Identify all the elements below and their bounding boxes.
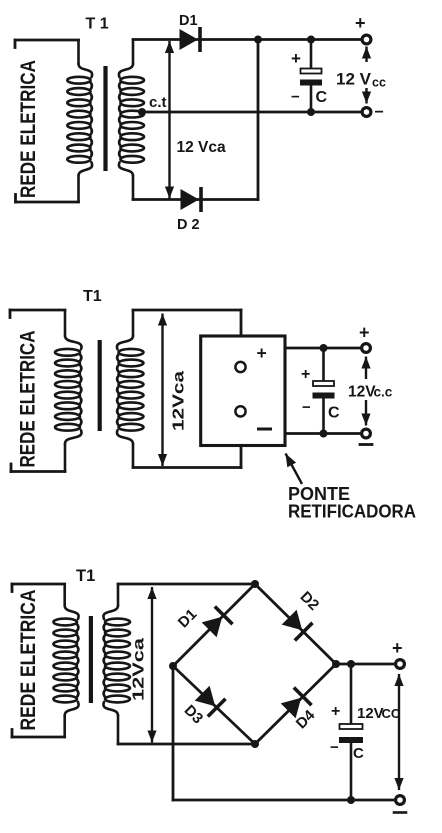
terminal + C1 [362,35,371,44]
bridge input terminal top [235,362,245,372]
svg-text:12Vca: 12Vca [131,638,148,701]
diode D2 (bridge) [282,610,313,641]
junction C2 cap top [320,344,328,352]
wire C2 mains bottom [11,470,65,473]
wire C1 mains top tick [14,40,17,48]
transformer T1-C2 secondary winding [117,310,144,468]
svg-text:C: C [316,89,328,106]
wire C2 top drop [240,310,243,363]
wire C1 center-tap rail [142,111,362,114]
wire C1 mains bottom [16,201,79,204]
svg-text:12Vca: 12Vca [171,371,188,431]
svg-text:C: C [353,745,364,762]
wire C1 mains bottom tick [14,195,17,203]
wire C2 mains top tick [9,310,12,318]
node C3 bridge left [169,662,177,670]
bridge rectifier box [201,336,285,446]
svg-text:+: + [359,323,370,343]
svg-text:+: + [301,366,310,383]
wire C2 secondary top rail [133,309,241,312]
svg-text:CC: CC [382,706,401,721]
junction C1 cap top [307,36,315,44]
wire C2 out bottom [285,432,362,435]
svg-text:REDE ELETRICA: REDE ELETRICA [17,590,40,731]
label - output C2 [360,443,372,446]
diode D2 [181,187,202,212]
wire C2 bottom riser [240,418,243,468]
label - output C3 [394,811,406,814]
svg-text:−: − [291,89,300,106]
wire C3 secondary bottom rail [118,743,255,746]
junction C3 cap bottom [347,796,355,804]
wire C3 bottom rail [173,799,395,802]
svg-text:RETIFICADORA: RETIFICADORA [288,502,416,522]
arrow C1 Vcc up [362,47,371,63]
capacitor C (C1) [300,40,322,113]
wire C3 edge top-right [255,584,336,664]
wire C3 mains top tick [11,584,14,592]
transformer T1-C2 primary winding [55,310,82,472]
svg-text:12 Vca: 12 Vca [177,139,227,156]
svg-text:+: + [355,13,366,33]
diode D1 (bridge) [202,607,233,638]
arrow C1 Vcc down [362,88,371,104]
terminal - C1 [362,108,371,117]
wire C3 edge bottom-left [173,666,255,744]
junction C2 cap bottom [320,430,328,438]
diode D1 [180,27,201,52]
wire C3 out top [336,663,395,666]
svg-text:12V: 12V [348,384,376,401]
wire C3 edge top-left [173,584,255,666]
svg-text:REDE ELETRICA: REDE ELETRICA [17,60,40,198]
diode D3 (bridge) [195,686,226,717]
wire C3 edge bottom-right [255,664,336,744]
terminal - C3 [396,796,405,805]
wire C1 mains top [15,39,79,42]
svg-text:+: + [257,343,267,363]
svg-text:−: − [330,739,339,756]
svg-text:T 1: T 1 [86,16,109,33]
arrow C3 Vca measure [147,587,156,743]
capacitor C (C3) [339,664,363,800]
svg-text:−: − [302,399,311,416]
svg-text:+: + [331,703,340,720]
svg-text:REDE ELETRICA: REDE ELETRICA [17,331,40,468]
svg-text:D 2: D 2 [177,217,200,233]
node c.t [138,108,146,116]
bridge input terminal bottom [235,406,245,416]
arrow PONTE pointer [286,454,303,485]
transformer T1-C1 secondary winding [119,40,144,200]
wire C3 mains bottom tick [11,730,14,738]
svg-text:c.c: c.c [374,385,393,400]
transformer T1-C1 core [103,66,107,171]
svg-text:−: − [375,104,384,121]
svg-text:+: + [291,49,301,68]
junction C3 cap top [347,660,355,668]
transformer T1-C3 secondary winding [103,584,130,744]
wire C2 out top [285,347,362,350]
wire C1 bottom rail [133,198,258,201]
wire C3 mains top [12,583,65,586]
wire C2 secondary bottom rail [133,466,241,469]
svg-text:C: C [328,405,340,422]
terminal + C2 [362,344,371,353]
arrow C2 Vcc up [361,357,370,380]
junction C1 cap bottom [307,108,315,116]
svg-text:T1: T1 [76,567,95,585]
capacitor C (C2) [313,348,335,434]
diode D4 (bridge) [281,688,312,719]
wire C2 mains bottom tick [10,464,13,472]
svg-text:T1: T1 [83,288,102,305]
node C3 bridge right [332,660,340,668]
transformer T1-C1 primary winding [67,40,92,202]
wire C1 D2 riser [257,40,260,200]
wire C3 left-node drop [172,666,175,800]
wire C3 secondary top rail [118,583,255,586]
terminal + C3 [396,660,405,669]
node C3 bridge bottom [251,740,259,748]
arrow C2 Vcc down [361,400,370,426]
arrow C1 Vca measure [165,41,174,199]
wire C2 mains top [10,309,65,312]
terminal - C2 [362,429,371,438]
arrow C2 Vca measure [158,314,167,467]
arrow C3 Vcc [394,674,403,790]
svg-text:12V: 12V [357,705,384,722]
transformer T1-C2 core [98,340,102,431]
transformer T1-C3 core [89,616,93,703]
wire C1 top rail [133,38,362,41]
svg-text:+: + [392,638,403,658]
svg-text:D1: D1 [179,13,198,29]
svg-text:12 V: 12 V [336,70,372,89]
junction C1 riser/top-rail [254,36,262,44]
wire C3 mains bottom [12,736,65,739]
svg-text:cc: cc [372,76,386,90]
transformer T1-C3 primary winding [53,584,78,737]
label bridge - [259,428,271,431]
svg-text:c.t: c.t [149,94,167,111]
node C3 bridge top [251,580,259,588]
